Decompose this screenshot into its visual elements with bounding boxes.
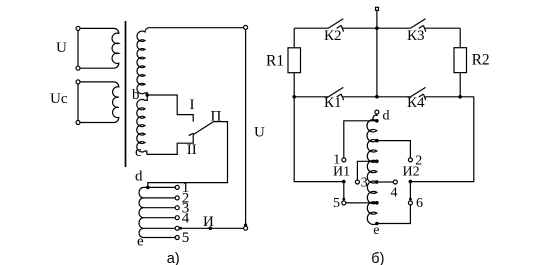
tap wire to terminal 3 (375, 160, 379, 164)
resistor R2 (459, 28, 461, 48)
svg-text:П: П (211, 109, 222, 125)
terminal 1 б) (342, 158, 346, 162)
contact K3 (377, 27, 410, 29)
transformer core (125, 21, 127, 167)
terminal 3 (175, 206, 179, 210)
terminal 2 (175, 196, 179, 200)
svg-text:c: c (135, 144, 142, 160)
svg-text:U: U (56, 40, 67, 56)
tap b (145, 93, 149, 97)
bus U (245, 29, 247, 224)
node e б) (375, 222, 379, 226)
tap dot 5 (375, 201, 379, 205)
svg-text:И2: И2 (403, 165, 420, 180)
wire И1 to 5 (343, 182, 345, 200)
tap wire to terminal 2 (375, 139, 379, 143)
winding d-e б) (367, 114, 377, 224)
svg-text:U: U (254, 125, 265, 141)
node R2 bottom (458, 95, 462, 99)
arm pivot tick (189, 133, 194, 135)
svg-text:e: e (137, 233, 144, 249)
node top bus center (375, 26, 379, 30)
junction dot U bottom (244, 223, 247, 226)
terminal 1 (175, 185, 179, 189)
svg-text:R1: R1 (266, 53, 284, 70)
terminal 3 б) (355, 180, 359, 184)
svg-text:e: e (373, 223, 379, 238)
wire 5 to winding (346, 202, 377, 204)
right bus б) (410, 97, 473, 182)
terminal 5 (175, 236, 179, 240)
svg-text:II: II (187, 142, 197, 158)
terminal d б) (375, 110, 379, 114)
svg-text:И: И (203, 214, 214, 230)
svg-text:b: b (132, 87, 140, 103)
svg-text:d: d (135, 169, 143, 185)
terminal (Uc bottom) (76, 121, 80, 125)
dot above 5 (342, 198, 345, 201)
contact II (147, 135, 193, 155)
svg-text:3: 3 (361, 176, 368, 191)
wire И row (179, 227, 243, 229)
node И (209, 227, 213, 231)
terminal 4 (175, 216, 179, 220)
svg-text:б): б) (371, 251, 384, 265)
svg-text:6: 6 (416, 196, 423, 211)
terminal U-line top (244, 25, 248, 29)
winding Uc (primary) (80, 82, 119, 123)
svg-text:I: I (190, 97, 195, 113)
svg-text:К1: К1 (324, 95, 342, 111)
wire И2 to 6 (409, 182, 411, 200)
svg-text:К3: К3 (407, 28, 425, 44)
svg-text:К4: К4 (407, 95, 425, 111)
winding U (primary) (80, 28, 119, 68)
svg-text:5: 5 (333, 196, 340, 211)
top terminal б) (376, 7, 379, 10)
svg-text:5: 5 (182, 230, 190, 246)
wire U terminals (77, 30, 79, 66)
svg-text:а): а) (167, 251, 180, 265)
svg-text:R2: R2 (472, 51, 490, 68)
svg-text:4: 4 (182, 210, 190, 226)
switch arm П (148, 122, 228, 187)
node K row center (375, 95, 379, 99)
svg-text:4: 4 (391, 186, 398, 201)
contact I (147, 95, 193, 122)
secondary winding b-c (137, 28, 244, 155)
wire Uc terminals (77, 84, 79, 121)
wire top terminal to bus (376, 11, 378, 29)
terminal (Uc top) (76, 80, 80, 84)
resistor R1 (293, 28, 295, 48)
terminal 6 б) (408, 201, 412, 205)
left bus б) (294, 97, 344, 182)
terminal (U top) (76, 26, 80, 30)
lower winding d-e loops (139, 187, 144, 237)
node d (146, 186, 150, 190)
tap wire to terminal 4 (375, 180, 379, 184)
contact K1 (292, 95, 296, 99)
terminal 4 б) (393, 180, 397, 184)
terminal U-line bottom (244, 226, 248, 230)
svg-text:d: d (383, 109, 390, 124)
lower winding d-e rows (144, 186, 176, 188)
svg-text:Uc: Uc (50, 91, 68, 107)
wire 6 to e (377, 205, 411, 224)
tap wire to terminal 1 (375, 119, 379, 123)
terminal 2 б) (408, 158, 412, 162)
terminal (U bottom) (76, 66, 80, 70)
wire center vertical (376, 28, 378, 97)
terminal 5 б) (342, 201, 346, 205)
svg-text:И1: И1 (333, 165, 350, 180)
dot above 6 (409, 198, 412, 201)
node И1 (342, 180, 346, 184)
contact K4 (377, 96, 410, 98)
wiper dot (179, 227, 182, 230)
terminal И row (175, 226, 179, 230)
node И2 (409, 180, 413, 184)
svg-text:К2: К2 (324, 28, 342, 44)
contact K2 (294, 27, 328, 29)
